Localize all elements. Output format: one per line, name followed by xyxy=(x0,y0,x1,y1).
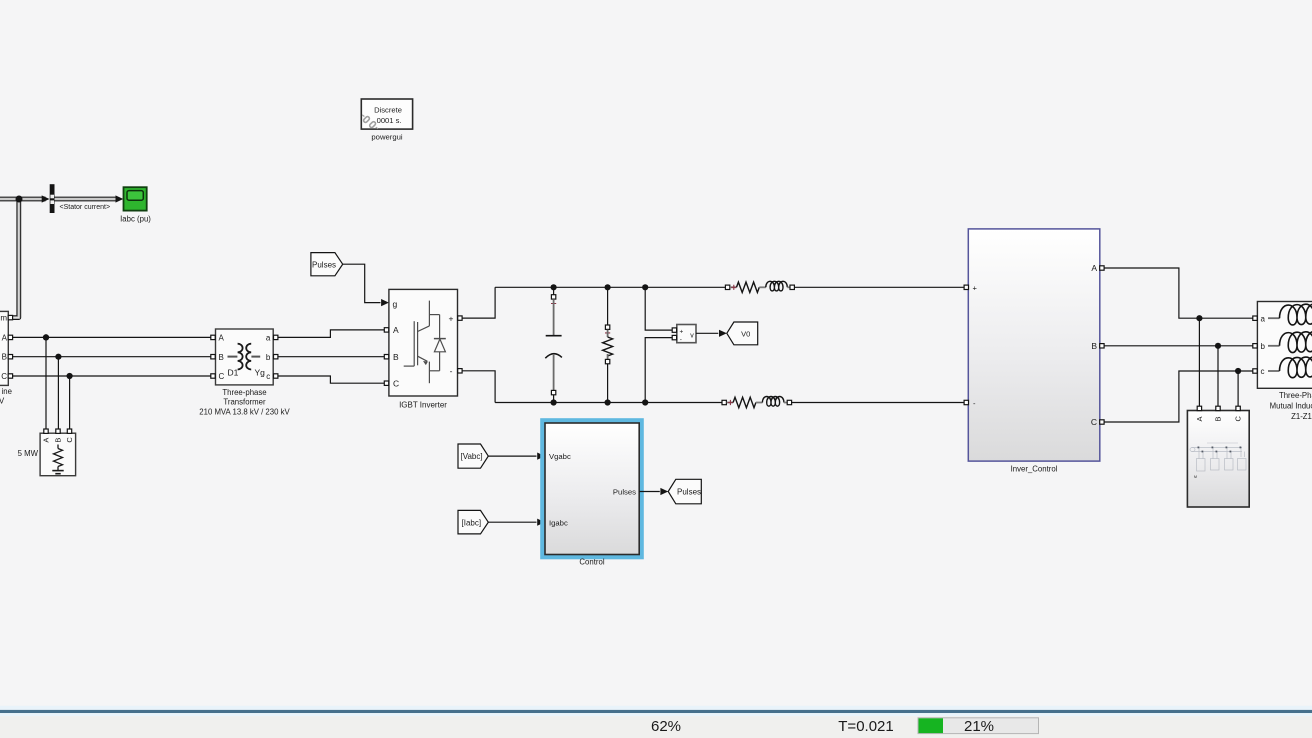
wire DC bus bottom xyxy=(495,402,722,404)
wire Inver_Control A to mutual a xyxy=(1104,268,1253,318)
broken link icon xyxy=(362,115,378,129)
wire bus vertical from machine m port xyxy=(10,199,19,318)
status bar pale glow above separator xyxy=(0,706,1312,710)
svg-text:Control: Control xyxy=(579,558,604,567)
svg-text:5 MW: 5 MW xyxy=(18,449,39,458)
From tag [Iabc] xyxy=(458,510,488,534)
transformer T1 block xyxy=(199,329,290,416)
svg-text:A: A xyxy=(42,438,51,443)
subsystem Inver_Control xyxy=(964,229,1104,473)
node a tap xyxy=(1196,315,1202,321)
wire RL top to Inver_Control + xyxy=(795,286,964,288)
svg-text:B: B xyxy=(1214,416,1223,421)
IGBT Inverter U1 block xyxy=(384,289,462,409)
svg-text:a: a xyxy=(1261,314,1266,323)
RL branch bottom (series RL) xyxy=(722,397,792,408)
svg-text:a: a xyxy=(266,334,271,343)
wire phase B machine to transformer xyxy=(13,356,211,358)
svg-text:Z1-Z1: Z1-Z1 xyxy=(1291,412,1312,421)
tiny inner one-line diagram xyxy=(1190,443,1246,471)
svg-text:ine: ine xyxy=(2,387,12,396)
node C tap xyxy=(67,373,73,379)
svg-text:B: B xyxy=(393,352,399,362)
svg-text:B: B xyxy=(2,353,7,362)
svg-text:B: B xyxy=(1091,341,1097,351)
wire A down to load xyxy=(45,337,47,429)
node b tap xyxy=(1215,343,1221,349)
winding Yg xyxy=(251,356,260,358)
svg-text:M: M xyxy=(1194,475,1197,479)
svg-text:C: C xyxy=(1091,417,1097,427)
svg-text:B: B xyxy=(54,438,63,443)
svg-text:Three-Phase: Three-Phase xyxy=(1279,391,1312,400)
Goto tag Pulses xyxy=(668,479,701,504)
svg-text:g: g xyxy=(393,299,398,309)
subsystem Control (highlighted) xyxy=(543,421,642,567)
wire Pulses tag to gate g xyxy=(343,264,381,302)
inductor Lb xyxy=(1268,345,1280,347)
svg-text:Vgabc: Vgabc xyxy=(549,452,571,461)
resistor inside load xyxy=(52,445,63,474)
svg-text:V0: V0 xyxy=(741,330,750,339)
node c tap xyxy=(1235,368,1241,374)
scope Iabc (pu) xyxy=(120,187,151,223)
Goto tag V0 xyxy=(727,322,758,345)
three-phase mutual inductance Z1-Z1 block xyxy=(1253,302,1312,422)
svg-text:A: A xyxy=(2,333,8,342)
svg-text:c: c xyxy=(1261,367,1265,376)
RL branch top (series RL) xyxy=(725,281,794,292)
svg-text:-: - xyxy=(680,337,682,344)
wire IGBT - to DC bus bottom xyxy=(462,371,495,403)
status bar background xyxy=(0,716,1312,738)
selector block (vertical bar) xyxy=(50,184,55,213)
wire RL bottom to Inver_Control - xyxy=(792,402,964,404)
svg-text:C: C xyxy=(1234,416,1243,422)
wire transformer a to IGBT A xyxy=(278,330,386,338)
wire phase C machine to transformer xyxy=(13,375,211,377)
wire Inver_Control B to mutual b xyxy=(1104,345,1253,347)
svg-text:Pulses: Pulses xyxy=(312,260,336,269)
svg-text:b: b xyxy=(266,353,271,362)
wire b tap down to meter B xyxy=(1217,346,1219,406)
status bar separator line xyxy=(0,710,1312,713)
svg-text:c: c xyxy=(266,372,270,381)
capacitor C1 branch xyxy=(545,284,562,405)
svg-text:+: + xyxy=(680,328,684,335)
svg-text:Iabc (pu): Iabc (pu) xyxy=(120,215,151,224)
svg-text:Mutual Inductance: Mutual Inductance xyxy=(1270,401,1312,410)
svg-text:Igabc: Igabc xyxy=(549,518,568,527)
machine block (clipped at left edge) xyxy=(0,311,13,405)
status bar pale glow below separator xyxy=(0,713,1312,716)
svg-text:[Iabc]: [Iabc] xyxy=(462,518,482,527)
wire top bus to v+ xyxy=(645,287,672,330)
wire c tap down to meter C xyxy=(1237,371,1239,406)
wire v to V0 tag xyxy=(696,332,718,334)
svg-text:Three-phase: Three-phase xyxy=(222,388,266,397)
svg-text:-: - xyxy=(450,366,453,376)
svg-text:+: + xyxy=(449,314,454,324)
wire IGBT + to DC bus top xyxy=(462,287,495,318)
wire Inver_Control C to mutual c xyxy=(1104,371,1253,422)
svg-text:D1: D1 xyxy=(228,368,239,378)
node A tap xyxy=(43,334,49,340)
wire transformer b to IGBT B xyxy=(278,356,386,358)
wire DC bus top xyxy=(495,286,725,288)
wire transformer c to IGBT C xyxy=(278,376,386,383)
svg-text:C: C xyxy=(219,372,225,381)
svg-text:B: B xyxy=(219,353,224,362)
wire [Vabc] to Control xyxy=(488,455,536,457)
wire bottom bus to v- xyxy=(645,338,672,403)
svg-text:v: v xyxy=(690,333,694,340)
svg-text:A: A xyxy=(1091,263,1097,273)
inductor La xyxy=(1268,317,1280,319)
svg-text:m: m xyxy=(0,314,7,323)
svg-text:.0001 s.: .0001 s. xyxy=(374,116,401,125)
svg-text:210 MVA 13.8 kV / 230 kV: 210 MVA 13.8 kV / 230 kV xyxy=(199,407,290,416)
IGBT + diode icon xyxy=(404,301,446,384)
svg-text:Discrete: Discrete xyxy=(374,106,402,115)
wire bus horizontal to selector xyxy=(0,197,46,202)
node B tap xyxy=(55,354,61,360)
wire a tap down to meter A xyxy=(1198,318,1200,406)
resistor R1 branch xyxy=(603,284,613,405)
wire bus selector to scope xyxy=(55,197,118,202)
svg-text:A: A xyxy=(219,334,225,343)
wire phase A machine to transformer xyxy=(13,336,211,338)
node junction on bus xyxy=(16,196,23,203)
svg-text:Yg: Yg xyxy=(255,368,266,378)
winding D1 xyxy=(228,356,238,358)
svg-text:Pulses: Pulses xyxy=(613,488,636,497)
svg-text:C: C xyxy=(1,372,7,381)
powergui block xyxy=(361,99,412,142)
svg-text:+: + xyxy=(973,284,978,293)
svg-text:C: C xyxy=(65,437,74,443)
svg-text:<Stator current>: <Stator current> xyxy=(60,204,111,211)
svg-text:powergui: powergui xyxy=(371,133,402,142)
svg-text:62%: 62% xyxy=(651,718,681,735)
measurement subsystem block (bottom right) xyxy=(1187,406,1249,507)
inductor Lc xyxy=(1268,370,1280,372)
svg-text:21%: 21% xyxy=(964,718,994,735)
wire [Iabc] to Control xyxy=(488,521,536,523)
From tag Pulses (to IGBT gate) xyxy=(311,253,343,276)
svg-text:Inver_Control: Inver_Control xyxy=(1011,464,1058,473)
svg-text:C: C xyxy=(393,378,399,388)
arrow into selector xyxy=(42,195,50,202)
svg-text:Pulses: Pulses xyxy=(677,488,701,497)
svg-text:Transformer: Transformer xyxy=(223,398,266,407)
wire C down to load xyxy=(69,376,71,430)
load 5 MW block xyxy=(18,429,76,476)
svg-text:[Vabc]: [Vabc] xyxy=(461,452,483,461)
svg-text:b: b xyxy=(1261,342,1266,351)
progress bar xyxy=(918,718,1039,734)
voltage measurement block xyxy=(672,325,696,344)
From tag [Vabc] xyxy=(458,444,488,468)
wire Control to Pulses tag xyxy=(639,491,660,493)
wire B down to load xyxy=(57,357,59,430)
svg-text:IGBT Inverter: IGBT Inverter xyxy=(399,401,447,410)
svg-text:T=0.021: T=0.021 xyxy=(838,718,893,735)
voltage measurement U2 taps xyxy=(642,284,648,290)
svg-text:A: A xyxy=(393,325,399,335)
svg-text:A: A xyxy=(1195,416,1204,421)
